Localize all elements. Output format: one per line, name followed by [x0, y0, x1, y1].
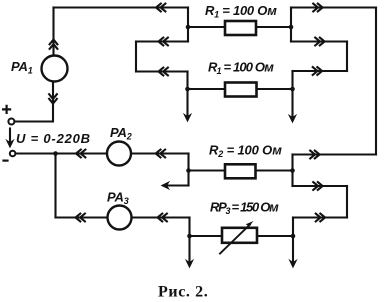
node on minus line	[53, 151, 58, 156]
wire vertical x188 middle	[187, 154, 189, 186]
wire PA2 to corner	[131, 152, 189, 154]
arrow down below RP3 left node	[186, 236, 193, 268]
minus terminal	[10, 151, 16, 157]
node on RP3 branch left	[187, 234, 192, 239]
connector chevrons y71 left	[159, 68, 168, 76]
plus sign	[3, 106, 10, 113]
svg-text:PA2: PA2	[110, 125, 132, 142]
wire from plus terminal to PA1 vertical	[15, 82, 54, 122]
wire vertical x187 to R1 lower branch	[186, 72, 188, 90]
resistor R1 lower box	[225, 83, 257, 97]
wire vertical x55 from minus line down	[54, 154, 56, 218]
wire minus terminal to PA2	[16, 152, 108, 154]
node on R1 lower branch right	[290, 87, 295, 92]
node on RP3 branch right	[291, 234, 296, 239]
node on R2 branch right	[290, 168, 295, 173]
ammeter PA1	[42, 56, 68, 82]
connector chevrons y71 right	[313, 67, 322, 75]
minus sign	[4, 160, 8, 162]
connector chevrons y154	[310, 151, 319, 159]
arrow down below R1 lower left node	[184, 89, 191, 122]
wire vertical x292 to R1 lower branch	[291, 71, 293, 89]
connector chevrons top right	[313, 4, 322, 12]
arrow down below R1 lower right node	[289, 89, 296, 123]
connector chevrons y41 left	[159, 38, 168, 46]
wire y71 right	[293, 70, 348, 72]
svg-text:R1 = 100 Ом: R1 = 100 Ом	[205, 3, 277, 20]
plus terminal	[8, 119, 14, 125]
wire vertical x347 lower	[346, 186, 348, 218]
rheostat RP3 box	[222, 228, 257, 243]
node on R1 upper branch left	[186, 25, 191, 30]
connector chevrons left of PA2	[76, 150, 85, 158]
wire y41 right	[291, 40, 347, 42]
ammeter PA2	[107, 142, 131, 166]
svg-text:PA1: PA1	[11, 59, 33, 76]
wire branch R2	[189, 169, 293, 171]
wire vertical x291	[290, 8, 292, 42]
wire PA3 to corner	[132, 216, 190, 218]
wire vertical x292 middle	[291, 155, 293, 187]
svg-text:R1 = 100 Ом: R1 = 100 Ом	[208, 60, 274, 77]
rheostat RP3 diagonal arrow	[220, 221, 254, 254]
resistor R1 upper box	[225, 21, 256, 35]
connector chevrons above PA1	[50, 40, 58, 49]
wire y71 left inner	[136, 70, 188, 72]
svg-text:R2 = 100 Ом: R2 = 100 Ом	[209, 143, 282, 160]
connector chevrons right of PA2	[156, 150, 165, 158]
wire vertical x136	[135, 42, 137, 72]
svg-text:PA3: PA3	[107, 190, 129, 207]
arrow down below RP3 right node	[289, 236, 296, 268]
wire vertical x347 upper	[346, 42, 348, 72]
wire branch R1 lower	[188, 88, 293, 90]
ammeter PA3	[108, 206, 132, 230]
wire y41 left inner	[136, 40, 188, 42]
wire vertical x189 to RP3 branch	[188, 218, 190, 237]
node on R1 lower branch left	[185, 87, 190, 92]
wire vertical x293 to RP3 branch	[292, 218, 294, 237]
wire branch R1 upper	[188, 26, 291, 28]
wire to PA3	[56, 216, 108, 218]
connector chevrons below PA1	[49, 94, 57, 103]
wire branch RP3	[190, 235, 294, 237]
wire y186 right	[293, 185, 348, 187]
resistor R2 box	[225, 164, 256, 178]
wire top right to bus	[291, 6, 376, 8]
connector chevrons y217 right	[316, 214, 325, 222]
connector chevrons y186	[313, 182, 322, 190]
wire y154 to right bus	[293, 153, 377, 155]
wire above PA1 up to top wire	[52, 8, 54, 56]
node on R1 upper branch right	[289, 25, 294, 30]
arrow down next to U label	[6, 129, 13, 148]
wire y217 right	[293, 216, 347, 218]
svg-text:Рис. 2.: Рис. 2.	[158, 284, 208, 301]
connector chevrons y41 right	[315, 38, 324, 46]
wire vertical x188 top block	[187, 8, 189, 42]
connector chevrons right of PA3	[158, 214, 167, 222]
svg-text:RP3 = 150 Ом: RP3 = 150 Ом	[210, 200, 279, 217]
wire right bus vertical	[375, 8, 377, 155]
svg-text:U = 0-220В: U = 0-220В	[16, 131, 91, 146]
wire top horizontal	[54, 6, 189, 8]
connector chevrons left of PA3	[76, 214, 85, 222]
node on R2 branch left	[186, 168, 191, 173]
arrow left below R2 node	[162, 182, 189, 189]
connector chevrons on top wire	[156, 4, 165, 12]
